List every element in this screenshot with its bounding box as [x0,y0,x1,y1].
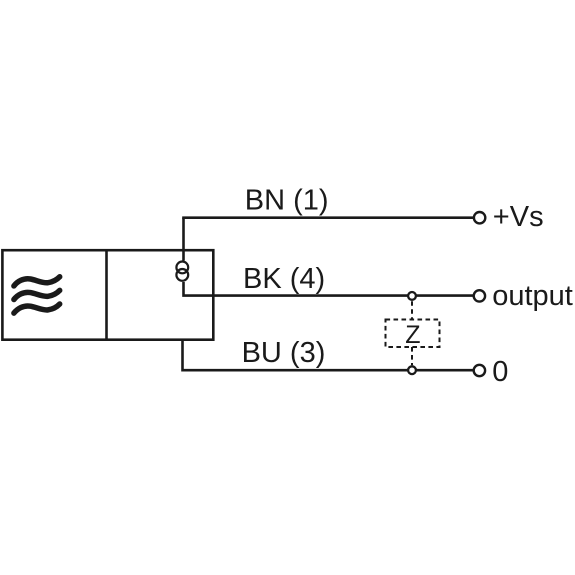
svg-text:0: 0 [492,356,508,388]
impedance Z dashed box [386,320,440,348]
svg-text:BN (1): BN (1) [245,185,329,217]
dashed link Z to BU junction [411,347,413,365]
terminal +Vs [474,212,485,223]
current source U1 [176,262,188,281]
sensor internal divider [105,250,108,340]
sensor body outer box [2,250,213,340]
wire BK from current source [184,282,474,296]
terminal output [474,290,485,301]
wire BN horizontal [182,216,473,219]
ultrasonic wave symbol [14,277,60,313]
dashed link junction to Z [411,301,413,319]
svg-text:output: output [492,280,573,312]
node junction on BU [408,366,416,374]
node junction on BK [408,292,416,300]
svg-text:Z: Z [405,321,420,349]
wire BN vertical [182,218,185,261]
svg-text:BK (4): BK (4) [243,263,325,295]
wire BU [183,340,474,371]
terminal 0 [474,365,485,376]
svg-text:+Vs: +Vs [493,201,544,233]
svg-text:BU (3): BU (3) [242,337,326,369]
